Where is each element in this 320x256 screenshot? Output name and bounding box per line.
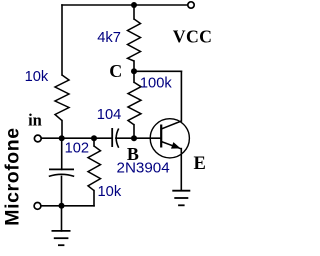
transistor Q1 emitter lead — [161, 142, 181, 149]
junction dot node C — [131, 68, 137, 74]
capacitor C 104 curved plate — [116, 129, 119, 148]
resistor R 10k lower — [88, 146, 101, 191]
wire emitter drop to ground — [180, 149, 182, 191]
transistor Q1 collector lead — [161, 121, 181, 129]
ground left — [52, 231, 71, 245]
transistor Q1 2N3904 body circle — [150, 119, 189, 158]
wire node C to collector corner — [134, 70, 181, 72]
wire C 102 bottom to bottom line — [61, 176, 63, 205]
capacitor C 102 curved plate — [49, 174, 74, 176]
resistor R 4k7 — [128, 19, 141, 61]
wire node to R 10k bottom resistor — [93, 138, 95, 146]
resistor R 10k upper-left — [55, 75, 69, 121]
transistor Q1 emitter arrow — [171, 142, 181, 149]
resistor R 100k — [128, 82, 141, 124]
svg-text:102: 102 — [65, 141, 90, 157]
svg-text:104: 104 — [97, 107, 122, 123]
wire top rail — [62, 4, 188, 6]
junction dot node B — [131, 135, 137, 141]
transistor Q1 base bar — [160, 125, 162, 148]
wire R 100k bottom to node B — [133, 125, 135, 139]
wire C 104 to base bar — [116, 137, 161, 139]
wire bottom junction to ground — [61, 206, 63, 231]
svg-text:B: B — [127, 144, 139, 164]
svg-text:C: C — [109, 61, 122, 81]
wire bottom line — [41, 205, 94, 207]
svg-text:10k: 10k — [25, 69, 49, 85]
junction dot input-R10k — [91, 135, 97, 141]
wire input junction down to C 102 — [61, 138, 63, 169]
wire collector drop — [180, 71, 182, 121]
svg-text:Microfone: Microfone — [1, 127, 23, 225]
terminal VCC open circle — [188, 2, 194, 8]
terminal bottom open circle — [34, 203, 41, 210]
junction dot bottom line — [59, 203, 65, 209]
wire left vertical from top rail to R 10k — [61, 5, 63, 75]
junction dot input-cap102 — [59, 135, 65, 141]
svg-text:2N3904: 2N3904 — [117, 160, 170, 177]
terminal input open circle — [34, 135, 41, 142]
svg-text:in: in — [28, 111, 42, 130]
junction dot top rail — [131, 2, 137, 8]
svg-text:E: E — [194, 154, 206, 174]
svg-text:10k: 10k — [98, 184, 122, 200]
wire R 10k bottom to input line — [61, 121, 63, 139]
wire R 4k7 bottom through node C to R 100k — [133, 61, 135, 82]
svg-text:100k: 100k — [140, 76, 173, 92]
capacitor C 102 flat plate — [49, 168, 74, 170]
capacitor C 104 flat plate — [111, 128, 113, 147]
wire input line — [41, 137, 112, 139]
wire top rail junction down to R 4k7 — [133, 5, 135, 19]
ground emitter — [172, 191, 190, 206]
wire R 10k bottom resistor to bottom line — [93, 191, 95, 206]
svg-text:4k7: 4k7 — [97, 30, 121, 46]
svg-text:VCC: VCC — [173, 27, 212, 47]
